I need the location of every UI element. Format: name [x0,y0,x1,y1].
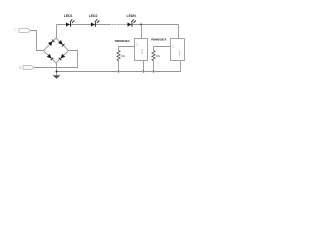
svg-text:RM9003EA: RM9003EA [115,39,131,43]
wire bridge bottom vertex drop [56,63,58,75]
resistor Rs1 zigzag [117,50,120,61]
wire Rs2 bottom drop [153,61,155,71]
ground symbol [52,75,60,79]
node junction dot bridge/rail [56,71,58,73]
IC U2 box [171,39,185,61]
wire U1 top pin drop [141,25,143,39]
bridge diode lower-right [59,54,65,60]
LED D1 [66,19,75,27]
resistor Rs2 zigzag [152,50,155,61]
wire top rail solid left [57,24,111,26]
wire top rail solid right with corner drop to U2 [127,25,179,39]
terminal L connector [19,29,31,33]
IC U1 box [135,39,148,61]
bridge rectifier diamond outline [44,38,69,63]
node junction dot Rs2/rail [153,71,155,73]
bridge diode upper-right [58,40,64,46]
wire U1 bottom pin drop [143,61,145,72]
LED D2 [91,19,100,27]
wire U1 left pin [119,47,135,51]
bridge diode upper-left [48,40,54,46]
svg-text:LEDN: LEDN [127,14,137,18]
svg-text:Rs: Rs [156,54,160,58]
wire U2 bottom pin drop and bottom rail [57,61,181,72]
svg-text:RM9003EA: RM9003EA [151,38,167,42]
LED DN [128,19,137,27]
svg-text:LED2: LED2 [89,14,98,18]
svg-text:L: L [14,28,16,32]
wire N run to bridge right vertex [35,51,78,68]
node junction dot Rs1/rail [118,71,120,73]
svg-text:Rs: Rs [121,54,125,58]
svg-text:N: N [19,66,22,70]
wire top rail faint underlay [111,24,127,26]
wire L to bridge left vertex [31,31,44,51]
node junction dot top rail [140,24,142,26]
bridge diode lower-left [47,54,53,60]
node junction dot U1/rail [143,71,145,73]
svg-text:LED1: LED1 [64,14,73,18]
wire U2 left pin [154,47,171,51]
wire Rs1 bottom drop [118,61,120,71]
terminal N connector [23,66,35,70]
wire bridge top vertex riser [56,25,58,39]
wire top rail dashed continuation [112,24,126,26]
